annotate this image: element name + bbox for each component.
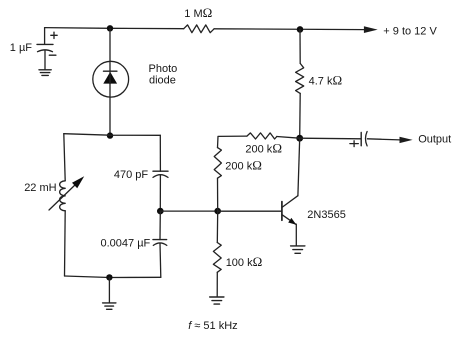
wire 0.0047 bottom [159,243,162,277]
wire output left [300,137,361,140]
ground bottom center [103,303,116,309]
resistor R3 200 kΩ horizontal [247,133,277,139]
svg-text:f ≈ 51 kHz: f ≈ 51 kHz [188,320,237,332]
node mid right [296,135,303,142]
wire left loop left side upper [64,134,65,181]
label 2N3565 [307,209,346,221]
wire 0.0047 top [159,211,161,240]
wire base [218,210,282,212]
wire 100k bottom [216,272,218,297]
capacitor C1 1 µF [37,32,57,55]
wire output right [367,139,400,140]
node top rail / 4.7k [297,26,304,33]
resistor R4 200 kΩ vertical [214,148,221,179]
node between caps [157,208,164,215]
node bottom ground [106,274,112,280]
svg-text:Output: Output [418,133,451,145]
wire photodiode bottom [109,84,111,136]
svg-text:diode: diode [149,75,176,87]
label + 9 to 12 V [383,26,437,38]
wire node row [160,210,217,212]
wire vertical 200k bottom [217,178,219,211]
inductor L1 22 mH [49,176,84,211]
ground below 100k [210,297,224,304]
wire left loop top edge [64,134,161,136]
svg-text:470 pF: 470 pF [114,169,149,181]
label 4.7 kΩ [309,73,343,88]
label Photo diode [149,63,178,87]
svg-text:4.7 kΩ: 4.7 kΩ [309,73,343,88]
label 1 µF [10,42,33,54]
label Output [418,133,451,145]
wire 4.7k top [299,29,301,63]
capacitor C4 output coupling [350,132,367,147]
resistor R2 4.7 kΩ [296,63,304,93]
node top rail / photodiode [107,25,113,31]
wire left loop left side lower [64,211,67,276]
capacitor C3 0.0047 µF [153,240,167,246]
label 470 pF [114,169,149,181]
wire 470pF top [159,135,161,171]
label f = 51 kHz [188,320,237,332]
svg-text:100 kΩ: 100 kΩ [226,254,263,269]
photodiode D1 [93,61,129,97]
wire bottom node to ground [108,277,110,302]
wire collector [298,138,300,196]
node base row [214,208,221,215]
wire emitter to ground [295,224,297,246]
svg-text:Photo: Photo [149,63,178,75]
label 200 kΩ vertical [225,158,262,173]
wire top rail right segment [214,28,364,31]
wire vertical 200k top corner [218,136,247,148]
wire C1 to ground [44,50,46,69]
svg-text:+ 9 to 12 V: + 9 to 12 V [383,26,437,38]
svg-text:1 MΩ: 1 MΩ [184,5,212,20]
wire capacitor C1 branch [44,28,46,45]
wire top rail left segment [45,28,184,29]
label 100 kΩ [226,254,263,269]
svg-text:22 mH: 22 mH [24,182,56,194]
wire left loop bottom edge [65,276,161,278]
resistor R5 100 kΩ [213,243,221,273]
transistor Q1 2N3565 [282,196,298,225]
svg-text:200 kΩ: 200 kΩ [245,141,282,156]
wire 100k top [216,211,218,242]
wire 470pF bottom [159,175,161,211]
label 22 mH [24,182,56,194]
svg-text:0.0047 µF: 0.0047 µF [101,238,151,250]
label 200 kΩ horizontal [245,141,282,156]
svg-text:1 µF: 1 µF [10,42,33,54]
label 0.0047 µF [101,238,151,250]
resistor R1 1 MΩ [184,25,214,33]
label 1 MΩ [184,5,212,20]
capacitor C2 470 pF [153,171,168,177]
ground below C1 [39,70,51,76]
ground below emitter [291,246,305,253]
power arrow [364,26,378,33]
svg-text:200 kΩ: 200 kΩ [225,158,262,173]
svg-text:2N3565: 2N3565 [307,209,346,221]
output arrow [400,137,413,143]
wire 4.7k bottom [299,93,302,138]
wire horizontal 200k right [277,137,300,139]
node below photodiode [107,132,113,138]
wire photodiode top [109,28,111,71]
